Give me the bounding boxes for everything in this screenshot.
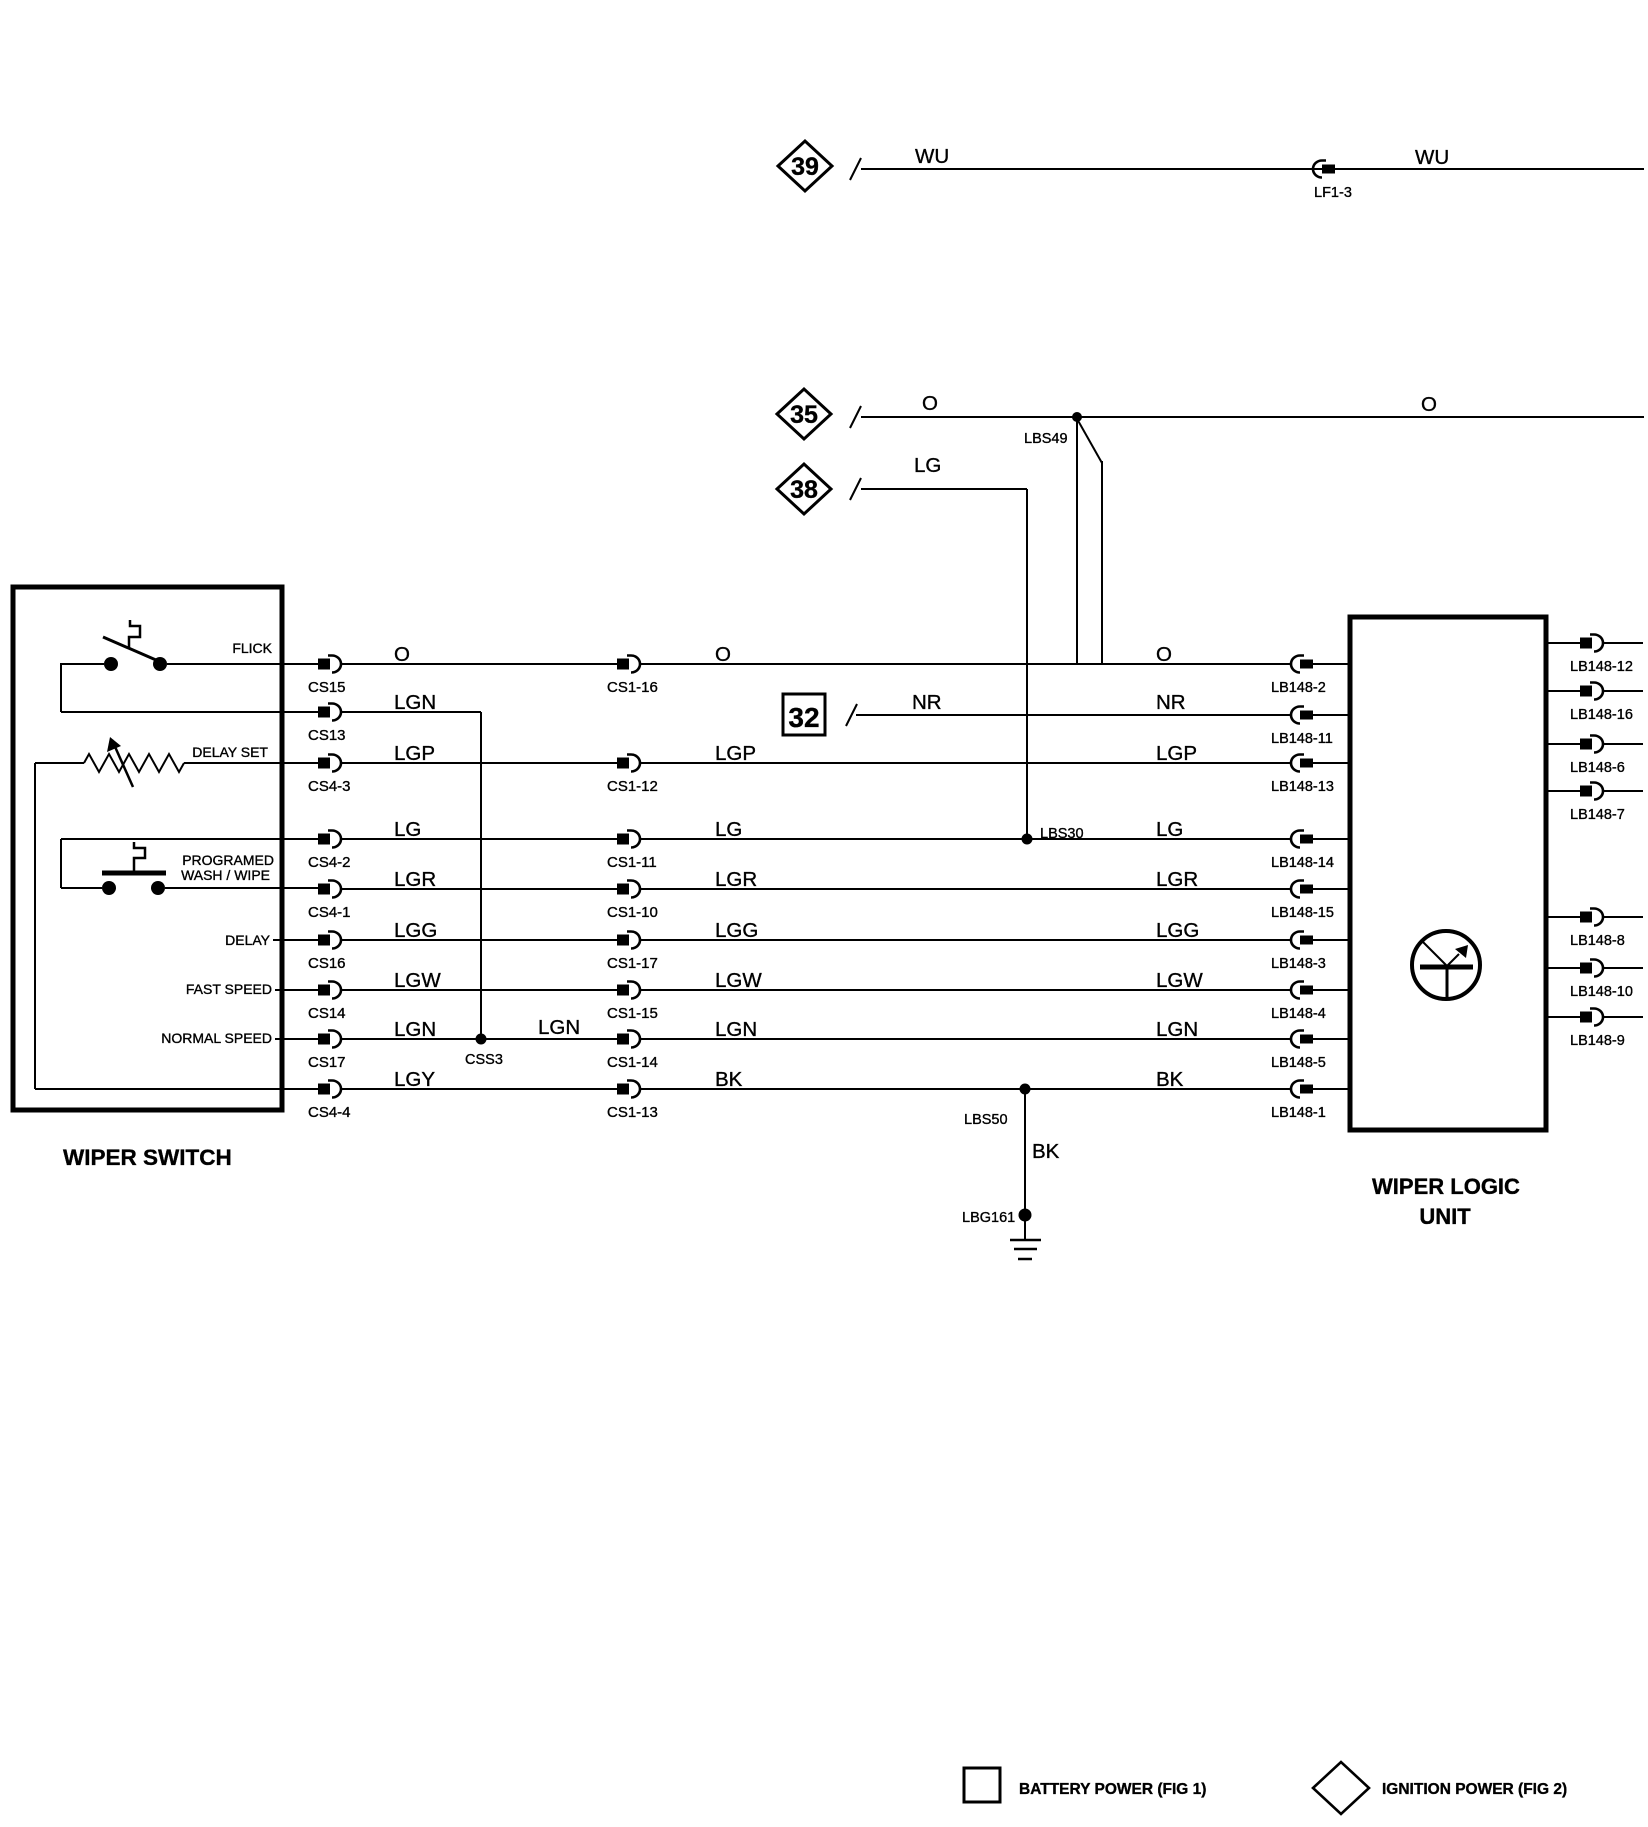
svg-text:LB148-5: LB148-5 [1271,1055,1326,1071]
svg-text:CS1-14: CS1-14 [607,1054,658,1071]
svg-text:35: 35 [790,401,818,429]
svg-text:CSS3: CSS3 [465,1052,503,1068]
svg-text:LB148-11: LB148-11 [1271,731,1333,747]
svg-text:LGR: LGR [715,868,757,891]
svg-text:O: O [394,643,410,666]
svg-text:CS1-17: CS1-17 [607,955,658,972]
svg-text:CS15: CS15 [308,679,346,696]
svg-text:CS17: CS17 [308,1054,346,1071]
svg-text:LB148-6: LB148-6 [1570,760,1625,776]
svg-text:NR: NR [912,691,942,714]
svg-text:LB148-14: LB148-14 [1271,855,1334,871]
svg-text:CS4-1: CS4-1 [308,904,351,921]
svg-text:38: 38 [790,476,818,504]
svg-text:WIPER LOGIC: WIPER LOGIC [1372,1174,1520,1199]
svg-text:LB148-16: LB148-16 [1570,707,1633,723]
svg-text:LB148-9: LB148-9 [1570,1033,1625,1049]
svg-text:32: 32 [788,702,819,733]
svg-text:CS16: CS16 [308,955,346,972]
svg-text:LB148-2: LB148-2 [1271,680,1326,696]
svg-text:LG: LG [1156,818,1183,841]
svg-text:PROGRAMED: PROGRAMED [182,852,274,868]
svg-text:LGW: LGW [715,969,762,992]
svg-text:CS4-3: CS4-3 [308,778,351,795]
svg-text:LGP: LGP [1156,742,1197,765]
svg-text:CS1-13: CS1-13 [607,1104,658,1121]
svg-text:LG: LG [914,454,941,477]
svg-text:CS1-16: CS1-16 [607,679,658,696]
svg-text:CS1-11: CS1-11 [607,854,657,871]
svg-text:O: O [1156,643,1172,666]
svg-text:WU: WU [915,145,949,168]
svg-text:LGR: LGR [1156,868,1198,891]
svg-text:WASH / WIPE: WASH / WIPE [181,867,270,883]
svg-text:LGN: LGN [394,1018,436,1041]
svg-text:WU: WU [1415,146,1449,169]
svg-text:LGP: LGP [394,742,435,765]
svg-text:LGN: LGN [715,1018,757,1041]
svg-text:LB148-3: LB148-3 [1271,956,1326,972]
svg-text:LF1-3: LF1-3 [1314,185,1352,201]
svg-text:BK: BK [715,1068,743,1091]
svg-text:O: O [715,643,731,666]
svg-text:39: 39 [791,153,819,181]
svg-text:O: O [1421,393,1437,416]
svg-text:LGN: LGN [394,691,436,714]
svg-text:LB148-13: LB148-13 [1271,779,1334,795]
svg-text:NORMAL SPEED: NORMAL SPEED [161,1030,272,1046]
svg-text:LB148-4: LB148-4 [1271,1006,1326,1022]
svg-text:UNIT: UNIT [1419,1204,1471,1229]
svg-text:FLICK: FLICK [232,640,272,656]
svg-text:LB148-12: LB148-12 [1570,659,1633,675]
svg-text:LGG: LGG [715,919,758,942]
svg-text:LB148-15: LB148-15 [1271,905,1334,921]
svg-text:CS1-12: CS1-12 [607,778,658,795]
svg-text:CS4-2: CS4-2 [308,854,351,871]
svg-text:LBS30: LBS30 [1040,826,1084,842]
svg-text:WIPER SWITCH: WIPER SWITCH [63,1145,232,1170]
svg-text:LBS50: LBS50 [964,1112,1008,1128]
svg-text:BK: BK [1156,1068,1184,1091]
svg-text:LGR: LGR [394,868,436,891]
svg-text:O: O [922,392,938,415]
svg-text:LGG: LGG [1156,919,1199,942]
svg-text:DELAY: DELAY [225,932,271,948]
svg-text:LG: LG [394,818,421,841]
svg-text:LB148-1: LB148-1 [1271,1105,1326,1121]
svg-text:LGY: LGY [394,1068,435,1091]
svg-text:CS14: CS14 [308,1005,346,1022]
svg-text:FAST SPEED: FAST SPEED [186,981,272,997]
svg-text:LGN: LGN [538,1016,580,1039]
svg-text:LGW: LGW [1156,969,1203,992]
svg-text:LGG: LGG [394,919,437,942]
svg-text:LBS49: LBS49 [1024,431,1068,447]
svg-text:CS1-10: CS1-10 [607,904,658,921]
svg-text:LG: LG [715,818,742,841]
svg-text:CS4-4: CS4-4 [308,1104,351,1121]
svg-text:NR: NR [1156,691,1186,714]
svg-text:IGNITION POWER (FIG 2): IGNITION POWER (FIG 2) [1382,1781,1567,1798]
svg-text:LGP: LGP [715,742,756,765]
svg-text:LGN: LGN [1156,1018,1198,1041]
svg-text:LBG161: LBG161 [962,1210,1015,1226]
svg-text:LB148-8: LB148-8 [1570,933,1625,949]
svg-text:CS13: CS13 [308,727,346,744]
svg-text:LB148-7: LB148-7 [1570,807,1625,823]
svg-text:LGW: LGW [394,969,441,992]
svg-text:BK: BK [1032,1140,1060,1163]
svg-text:DELAY SET: DELAY SET [192,744,268,760]
svg-text:LB148-10: LB148-10 [1570,984,1633,1000]
svg-text:BATTERY POWER (FIG 1): BATTERY POWER (FIG 1) [1019,1781,1206,1798]
svg-text:CS1-15: CS1-15 [607,1005,658,1022]
